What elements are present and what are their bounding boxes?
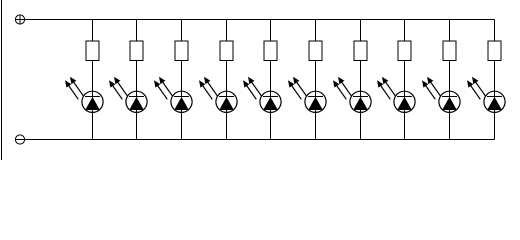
resistor R9: [443, 41, 456, 61]
wire branch 8 vertical: [404, 20, 406, 140]
wire branch 3 vertical: [181, 20, 183, 140]
resistor R8: [398, 41, 411, 61]
wire branch 7 vertical: [360, 20, 362, 140]
LED D2: [109, 77, 147, 113]
resistor R6: [309, 41, 322, 61]
resistor R3: [175, 41, 188, 61]
LED D10: [467, 77, 505, 113]
LED D9: [422, 77, 460, 113]
LED D7: [333, 77, 371, 113]
resistor R1: [86, 41, 99, 61]
wire branch 2 vertical: [136, 20, 138, 140]
LED D4: [199, 77, 237, 113]
wire branch 1 vertical: [92, 20, 94, 140]
positive supply terminal: [15, 15, 24, 25]
resistor R10: [488, 41, 501, 61]
wire branch 5 vertical: [270, 20, 272, 140]
wire branch 9 vertical: [449, 20, 451, 140]
wire bottom negative rail: [15, 139, 494, 141]
LED D8: [377, 77, 415, 113]
wire top positive rail: [15, 19, 494, 21]
resistor R7: [354, 41, 367, 61]
LED D6: [288, 77, 326, 113]
LED D1: [65, 77, 103, 113]
LED D3: [154, 77, 192, 113]
resistor R2: [130, 41, 143, 61]
LED D5: [243, 77, 281, 113]
wire branch 10 vertical: [494, 20, 496, 140]
wire branch 6 vertical: [315, 20, 317, 140]
resistor R4: [220, 41, 233, 61]
wire branch 4 vertical: [226, 20, 228, 140]
negative supply terminal: [15, 135, 24, 144]
resistor R5: [264, 41, 277, 61]
